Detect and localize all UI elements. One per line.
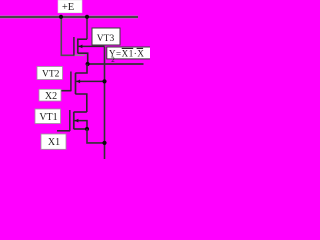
- svg-text:X1: X1: [48, 137, 60, 148]
- junction dot VT2 substrate on bus: [102, 79, 106, 83]
- VT1 channel bar: [73, 112, 75, 129]
- VT2 gate input wire from X2: [61, 90, 71, 92]
- VT2 channel bar: [75, 73, 77, 94]
- junction dot VT1 source/substrate: [85, 127, 89, 131]
- VT3 substrate lead to bus: [78, 45, 104, 47]
- power rail +E: [0, 16, 138, 19]
- VT1 gate input wire from X1: [57, 130, 70, 132]
- label box +E: [58, 0, 82, 13]
- svg-text:+E: +E: [62, 2, 74, 13]
- VT3 gate bar: [73, 37, 75, 55]
- svg-text:VT1: VT1: [39, 112, 57, 123]
- junction dot bottom bus: [102, 141, 106, 145]
- VT1 substrate lead: [74, 121, 87, 129]
- VT3 substrate arrow: [79, 45, 83, 49]
- VT2 source lead down: [75, 94, 87, 112]
- svg-text:X2: X2: [45, 91, 57, 102]
- wire: VT3 drain feed from rail: [86, 17, 88, 39]
- VT2 drain lead to node: [75, 64, 87, 73]
- right bus (drain bus to bottom): [104, 46, 106, 159]
- VT1 substrate arrow: [75, 119, 79, 123]
- VT1 source lead: [74, 128, 87, 130]
- artifact ghost under VT3: [75, 54, 85, 56]
- VT2 gate bar: [70, 72, 72, 92]
- wire: VT3 gate feed from rail: [61, 17, 74, 55]
- transistor VT2: [61, 64, 105, 112]
- VT3 source lead: [78, 53, 88, 64]
- VT3 channel bar: [77, 39, 79, 54]
- label box VT2: [37, 67, 63, 80]
- output node Y wire: [86, 63, 144, 65]
- label box VT1: [35, 109, 61, 124]
- label box X2: [39, 89, 61, 102]
- VT2 substrate arrow: [76, 80, 80, 84]
- junction dot on rail (gate feed): [59, 15, 63, 19]
- svg-text:VT2: VT2: [42, 70, 60, 80]
- svg-text:VT3: VT3: [97, 34, 115, 44]
- VT3 drain lead: [78, 38, 87, 40]
- junction dot on rail (drain feed): [85, 15, 89, 19]
- label box X1: [41, 134, 66, 149]
- transistor VT3: [74, 37, 105, 64]
- VT2 substrate lead to bus: [76, 80, 104, 82]
- VT1 drain lead up: [74, 111, 87, 113]
- label box Y = X1bar * X2bar: [107, 47, 152, 59]
- label box VT3: [92, 28, 120, 45]
- transistor VT1: [57, 110, 87, 131]
- svg-text:2: 2: [111, 56, 115, 64]
- wire VT1 source to bus: [87, 129, 105, 143]
- junction dot output node: [86, 62, 90, 66]
- VT1 gate bar: [69, 110, 71, 131]
